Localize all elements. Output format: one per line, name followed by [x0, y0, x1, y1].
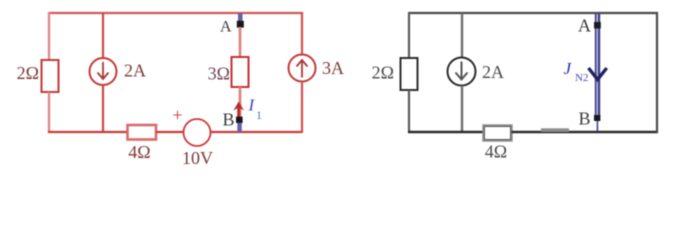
- current source 2A circle (right circuit): [448, 58, 476, 86]
- wire: left circuit bottom rail segment 1: [48, 131, 128, 133]
- svg-text:N2: N2: [575, 72, 588, 84]
- wire: right circuit left edge lower: [408, 90, 410, 133]
- node B tie wire (blue, left circuit): [237, 123, 242, 133]
- svg-text:B: B: [222, 110, 234, 130]
- svg-text:A: A: [220, 19, 232, 36]
- resistor 4Ω body (right circuit): [484, 126, 512, 141]
- node B junction dot (right circuit): [594, 115, 600, 121]
- svg-text:+: +: [172, 105, 182, 125]
- resistor 2Ω body (right circuit): [401, 58, 418, 90]
- wire: 3Ω branch upper (left circuit): [239, 27, 242, 58]
- wire: 2A branch upper (left circuit): [102, 13, 104, 58]
- current source 3A arrow (up): [297, 60, 308, 78]
- wire: 2A branch lower (right circuit): [461, 86, 463, 134]
- svg-text:3Ω: 3Ω: [208, 64, 230, 84]
- wire: right circuit bottom rail segment 2: [512, 131, 659, 133]
- svg-text:2A: 2A: [124, 61, 146, 81]
- short-circuit bar (10V source replaced by short): [541, 128, 569, 132]
- svg-text:3A: 3A: [322, 58, 344, 78]
- branch J_N2 bar highlight: [596, 14, 598, 116]
- branch J_N2 thick blue bar (A to B): [595, 14, 600, 116]
- wire: right circuit left edge upper: [408, 12, 410, 59]
- node B junction dot (left circuit): [236, 117, 243, 123]
- svg-text:10V: 10V: [182, 148, 213, 168]
- current source 3A circle (left circuit): [289, 55, 316, 82]
- wire: 2A branch upper (right circuit): [461, 13, 463, 58]
- wire: right circuit top rail: [408, 12, 658, 14]
- arrowhead of J_N2 (down chevron): [589, 68, 607, 80]
- svg-text:A: A: [578, 16, 591, 36]
- wire: left circuit left edge lower: [48, 92, 50, 133]
- wire: 2A branch lower (left circuit): [102, 85, 104, 133]
- wire: left circuit right edge lower: [301, 82, 303, 134]
- node A junction dot (right circuit): [594, 22, 601, 28]
- current I1 arrow (up, on branch above node B): [233, 102, 244, 118]
- svg-text:4Ω: 4Ω: [485, 142, 507, 162]
- voltage source 10V circle: [184, 119, 211, 146]
- resistor 4Ω body inner border (right circuit): [485, 127, 511, 140]
- svg-text:1: 1: [256, 108, 262, 122]
- wire: left circuit left edge upper: [48, 12, 50, 61]
- node A tie wire (blue, left circuit): [238, 13, 243, 22]
- wire: right circuit bottom rail segment 1: [408, 131, 484, 133]
- resistor 4Ω body (left circuit): [128, 125, 157, 140]
- current source 2A arrow (down, right circuit): [456, 62, 468, 80]
- resistor 3Ω body (left circuit): [232, 57, 249, 87]
- svg-text:2Ω: 2Ω: [372, 63, 394, 83]
- svg-text:2A: 2A: [482, 62, 504, 82]
- wire: node B to bottom rail (thin blue): [596, 121, 598, 131]
- wire: right circuit right edge: [656, 12, 658, 133]
- node A junction dot (left circuit): [237, 21, 244, 28]
- current source 2A arrow (down): [98, 62, 109, 79]
- svg-text:4Ω: 4Ω: [128, 142, 150, 162]
- wire: left circuit bottom rail segment 3: [211, 131, 303, 133]
- wire: left circuit top rail: [48, 12, 302, 14]
- wire: left circuit right edge upper: [301, 12, 303, 55]
- current source 2A circle (left circuit): [90, 58, 117, 85]
- svg-text:B: B: [578, 109, 590, 129]
- svg-text:2Ω: 2Ω: [17, 63, 39, 83]
- wire: 3Ω branch lower (left circuit): [239, 87, 242, 118]
- resistor 2Ω body (left circuit): [42, 60, 59, 92]
- wire: left circuit bottom rail segment 2: [156, 131, 184, 133]
